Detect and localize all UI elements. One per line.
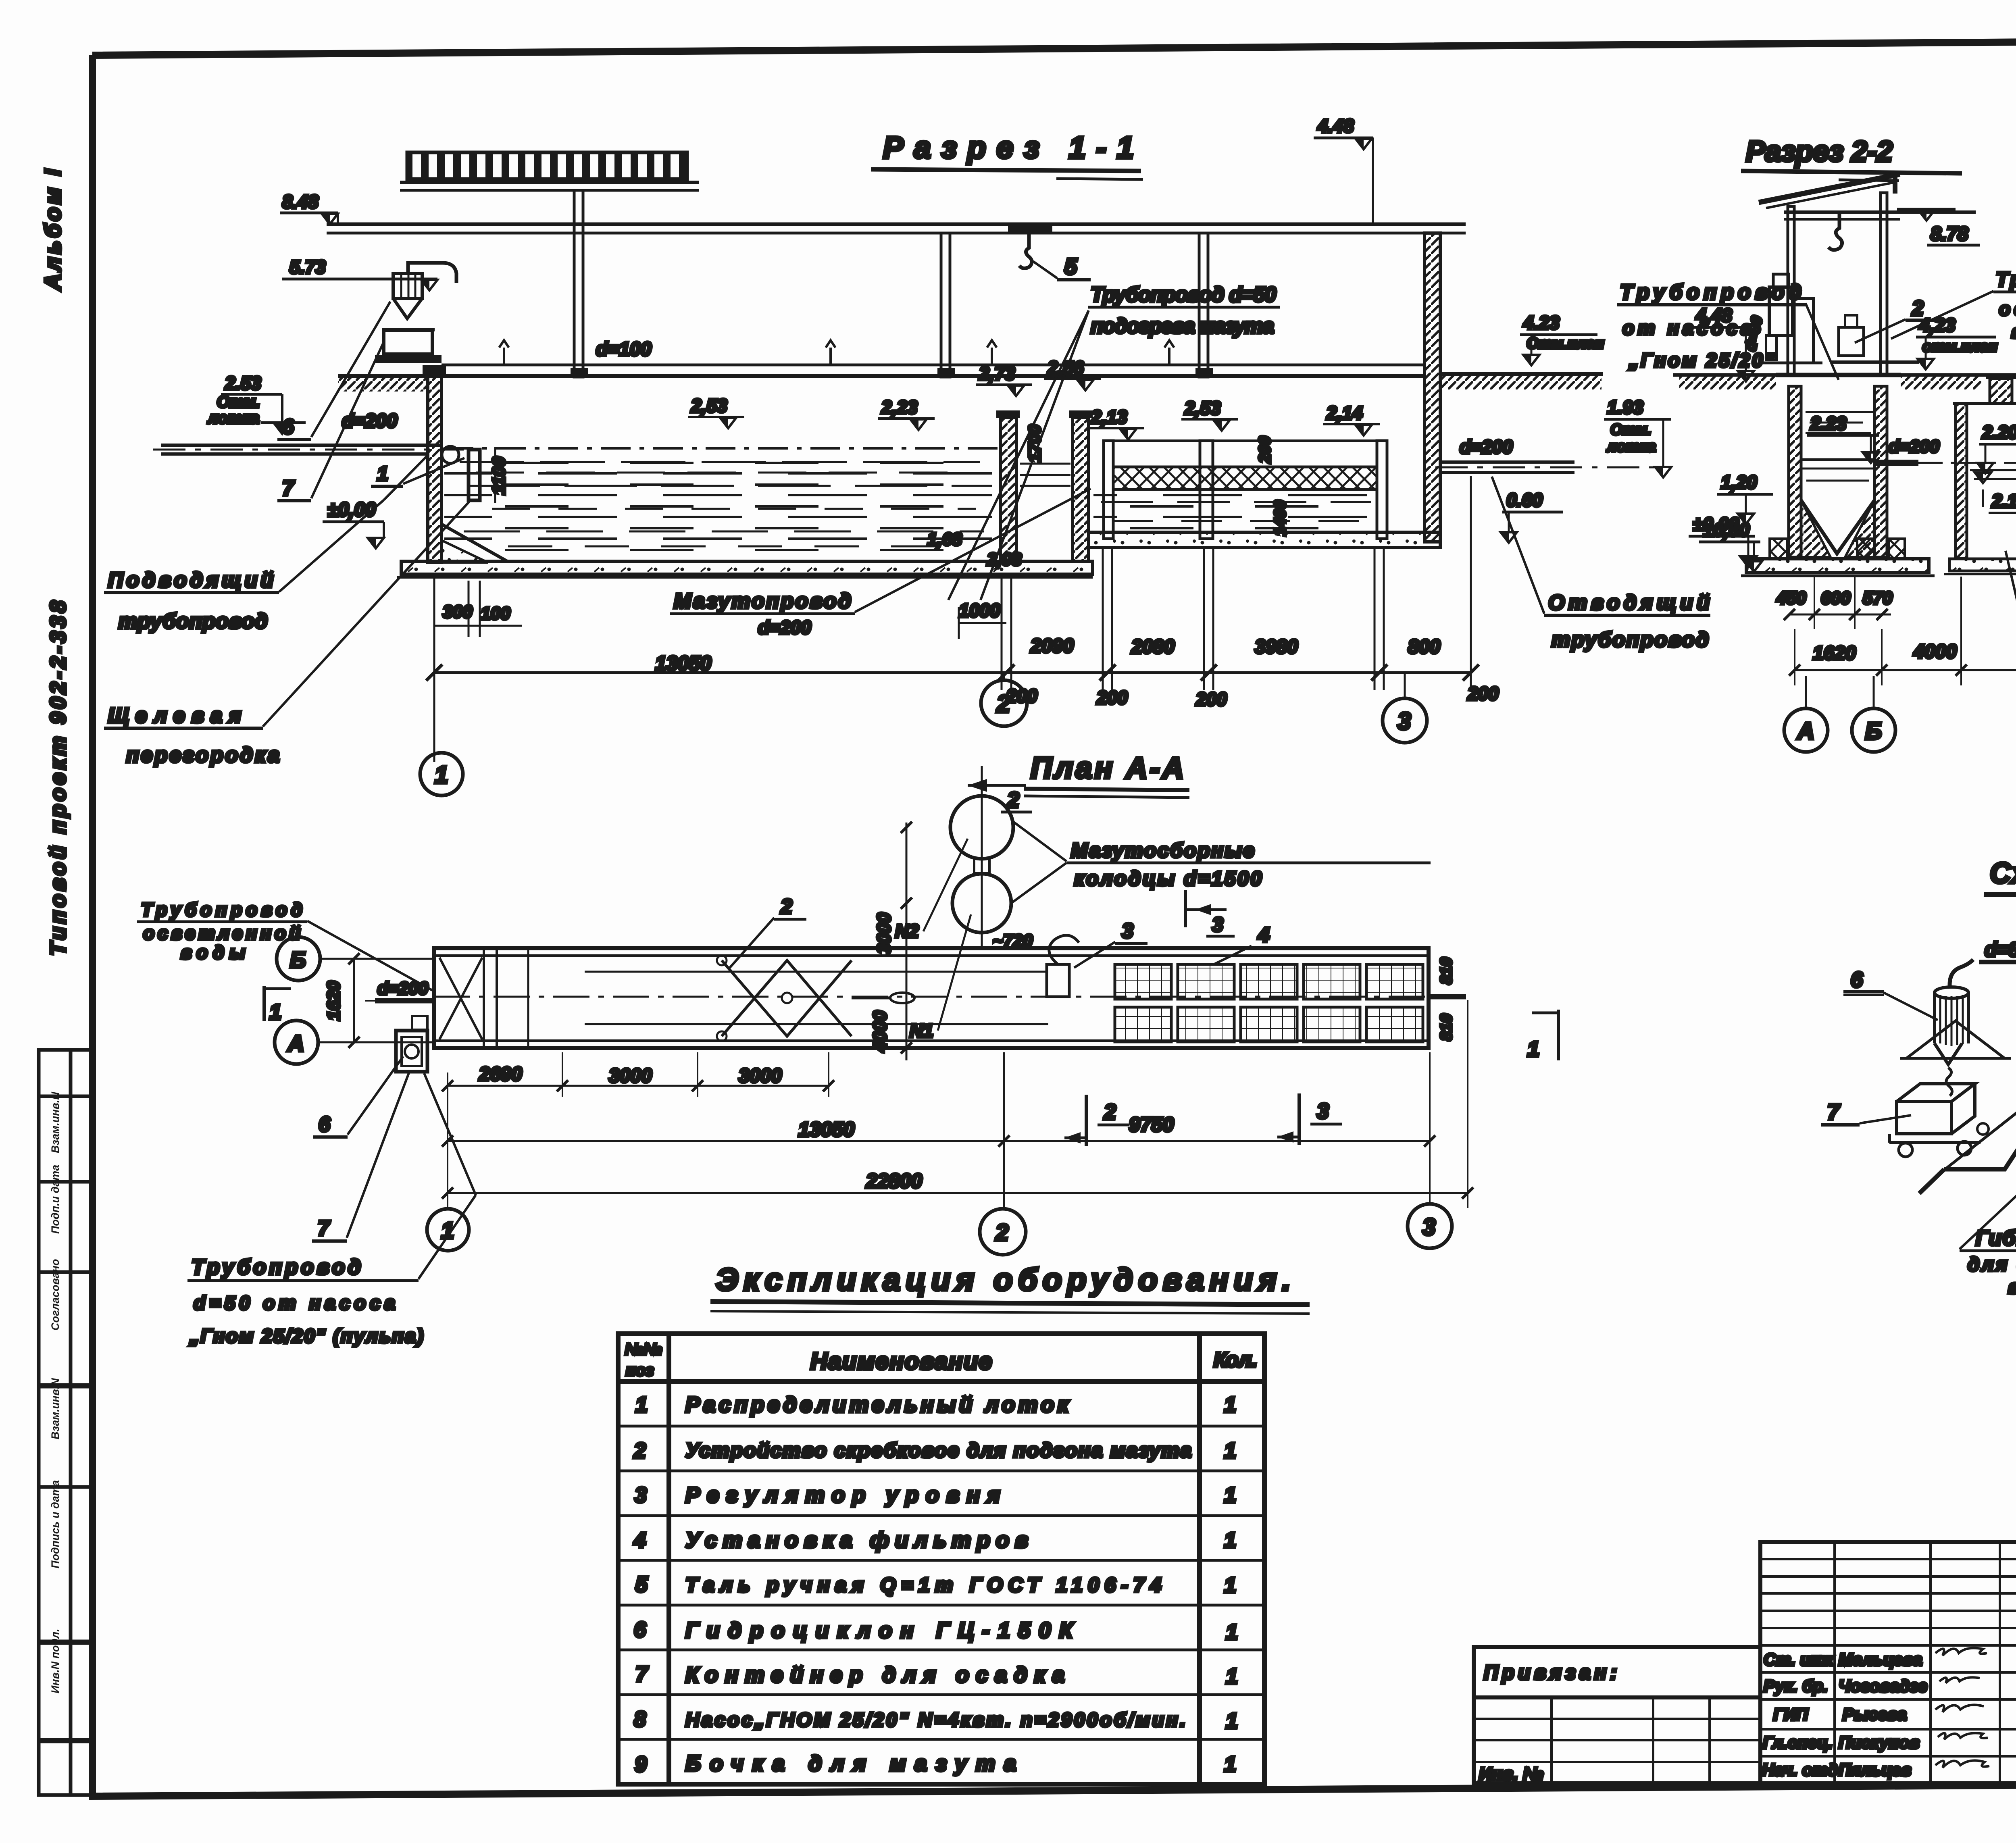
svg-text:ГИП: ГИП (1773, 1705, 1808, 1724)
anchor lugs (1770, 539, 1787, 559)
svg-text:Рук. бр.: Рук. бр. (1764, 1676, 1828, 1695)
plan axis circle 1 (427, 1209, 469, 1251)
svg-text:2090: 2090 (1030, 635, 1074, 657)
svg-text:1: 1 (1226, 1620, 1238, 1644)
svg-text:Ст. инж: Ст. инж (1764, 1650, 1834, 1669)
svg-text:1: 1 (1224, 1483, 1236, 1507)
riser pipe scheme (1944, 962, 2016, 1169)
filter media band (1113, 467, 1377, 489)
svg-text:1000: 1000 (959, 600, 1000, 621)
svg-text:Трубопровод: Трубопровод (141, 899, 302, 920)
svg-text:6: 6 (634, 1618, 646, 1642)
table rows numbers (633, 1393, 649, 1776)
svg-text:200: 200 (1467, 683, 1499, 704)
pump 2 pedestal (1839, 327, 1864, 356)
svg-text:Подп.и дата: Подп.и дата (49, 1165, 61, 1234)
hut top beam (1784, 210, 1976, 214)
svg-text:воды: воды (181, 942, 245, 963)
svg-text:d=200: d=200 (758, 617, 811, 638)
svg-text:3: 3 (1422, 1214, 1435, 1240)
svg-text:810: 810 (1437, 958, 1455, 985)
svg-text:План А-А: План А-А (1031, 751, 1188, 785)
svg-text:2.10: 2.10 (1991, 490, 2016, 511)
svg-text:2,23: 2,23 (881, 397, 918, 418)
plan axis circle 2 (980, 1209, 1026, 1255)
svg-text:7: 7 (1827, 1100, 1841, 1124)
pump pit plan (396, 1031, 427, 1072)
svg-text:600: 600 (1821, 588, 1851, 608)
foundation slab tank2 (1089, 532, 1440, 548)
svg-text:Схема трубопроводов: Схема трубопроводов (1990, 857, 2016, 889)
svg-text:d=200: d=200 (1889, 437, 1940, 456)
svg-text:200: 200 (1256, 436, 1274, 464)
svg-text:колодцы d=1500: колодцы d=1500 (1074, 867, 1262, 890)
svg-text:„Гном 25/20": „Гном 25/20" (1629, 350, 1774, 371)
svg-text:5.73: 5.73 (289, 256, 326, 277)
svg-text:1: 1 (435, 761, 448, 788)
plan band outline (434, 948, 1429, 1048)
svg-text:1620: 1620 (324, 981, 344, 1020)
svg-text:2: 2 (1007, 788, 1019, 812)
table rows qty (1224, 1393, 1238, 1776)
mazut wells circles in plan (981, 766, 983, 948)
svg-text:200: 200 (1096, 687, 1128, 708)
svg-text:2,53: 2,53 (691, 395, 727, 416)
slot baffle (469, 450, 480, 500)
plan dim chain row2 (448, 1140, 1430, 1142)
section mark 1 right (1557, 1010, 1560, 1060)
cone hopper (1801, 500, 1874, 554)
signature names (1762, 1650, 1927, 1779)
privyazan box (1474, 1647, 1760, 1783)
svg-text:лотка: лотка (207, 409, 259, 427)
svg-text:Отм.план: Отм.план (1527, 335, 1604, 352)
section mark 3 upper (1184, 890, 1187, 927)
svg-text:3: 3 (1397, 708, 1411, 735)
svg-text:570: 570 (1863, 588, 1893, 608)
svg-text:Подпись и дата: Подпись и дата (49, 1480, 61, 1568)
svg-text:8: 8 (634, 1707, 646, 1731)
svg-text:13050: 13050 (655, 652, 711, 675)
svg-text:2,53: 2,53 (1184, 398, 1221, 419)
svg-text:2: 2 (996, 690, 1010, 717)
svg-text:3: 3 (1212, 913, 1223, 936)
ground hut floor (1776, 373, 1901, 377)
svg-text:Привязан:: Привязан: (1484, 1661, 1617, 1684)
svg-text:1: 1 (1224, 1752, 1236, 1776)
svg-text:Согласовано: Согласовано (49, 1259, 61, 1331)
svg-text:3000: 3000 (609, 1065, 652, 1087)
svg-text:1: 1 (441, 1218, 454, 1244)
svg-text:Пискунов: Пискунов (1839, 1733, 1920, 1752)
svg-text:Наименование: Наименование (810, 1348, 992, 1374)
ground hatch left of tank (338, 374, 428, 378)
plan axis circle 3 (1408, 1204, 1452, 1248)
water lines middle well (1970, 469, 2016, 471)
sludge container (384, 331, 432, 354)
svg-text:воды d=25: воды d=25 (2008, 1277, 2016, 1298)
column 1 (574, 190, 583, 377)
svg-text:3: 3 (1122, 919, 1133, 943)
svg-text:6: 6 (319, 1113, 331, 1136)
right wall (1425, 233, 1440, 542)
svg-text:2690: 2690 (479, 1064, 522, 1085)
svg-text:4.23: 4.23 (1523, 312, 1560, 333)
svg-text:Нач. отд: Нач. отд (1762, 1760, 1838, 1779)
svg-text:2: 2 (1104, 1100, 1116, 1124)
svg-text:1: 1 (377, 462, 388, 485)
scraper device in plan (722, 960, 852, 1036)
svg-text:2,73: 2,73 (979, 363, 1015, 384)
pump gnom in hut (1769, 287, 1793, 335)
svg-text:Мазутосборные: Мазутосборные (1071, 839, 1254, 862)
svg-text:Б: Б (290, 947, 306, 973)
svg-text:d=200: d=200 (1460, 436, 1513, 457)
tank1 bottom slope (442, 524, 507, 561)
svg-text:100: 100 (481, 604, 510, 623)
svg-text:трубопровод: трубопровод (119, 610, 268, 633)
svg-text:Взам.инв.N: Взам.инв.N (49, 1092, 61, 1153)
svg-text:подогрева мазута: подогрева мазута (1091, 314, 1274, 338)
svg-text:3000: 3000 (739, 1065, 782, 1087)
svg-text:2: 2 (633, 1439, 646, 1463)
section mark 2 top (968, 784, 1026, 787)
svg-text:3980: 3980 (1255, 636, 1298, 658)
axis circle A (1805, 676, 1807, 708)
hut roof (1759, 174, 1900, 202)
plan dim chain row3 (448, 1192, 1468, 1194)
axis lines A B (320, 958, 434, 960)
svg-text:200: 200 (1195, 689, 1227, 710)
hoist trolley and hook (1008, 224, 1052, 232)
svg-text:8.48: 8.48 (282, 191, 319, 212)
svg-text:Регулятор уровня: Регулятор уровня (685, 1483, 1000, 1507)
svg-text:№№: №№ (625, 1341, 662, 1358)
shed roof slab (407, 152, 687, 179)
hydrocyclone unit on platform (408, 263, 456, 283)
svg-text:810: 810 (1437, 1014, 1455, 1041)
vertical dim 3000 4000 (906, 823, 908, 1060)
svg-text:1,20: 1,20 (1721, 472, 1757, 493)
plan center axis (434, 996, 1429, 998)
svg-text:Кол.: Кол. (1214, 1348, 1258, 1372)
svg-text:Трубопровод: Трубопровод (1620, 281, 1801, 304)
svg-text:1: 1 (1224, 1528, 1236, 1552)
oil level line (444, 447, 999, 450)
tank top walkway (442, 364, 1425, 367)
svg-text:±0,00: ±0,00 (1693, 514, 1739, 535)
filter chamber posts (1104, 439, 1387, 442)
middle weir walls (1000, 417, 1016, 561)
middle well (1956, 404, 1967, 558)
svg-text:2: 2 (780, 895, 792, 918)
svg-text:d=200: d=200 (342, 410, 398, 432)
stamp strip vertical captions (49, 1092, 61, 1693)
svg-text:2.23: 2.23 (1810, 413, 1847, 434)
svg-text:Гибкий шланг: Гибкий шланг (1976, 1227, 2016, 1250)
column 2 (941, 233, 950, 377)
hook 2-2 (1829, 213, 1842, 250)
svg-text:1: 1 (269, 1000, 281, 1024)
svg-text:1: 1 (1224, 1439, 1236, 1463)
svg-text:450: 450 (1776, 588, 1806, 608)
svg-text:0.60: 0.60 (1506, 489, 1543, 510)
svg-text:d=200: d=200 (377, 979, 429, 998)
svg-text:22800: 22800 (866, 1170, 922, 1192)
dim 1620 vertical (353, 959, 355, 1042)
stand triangle (1906, 1021, 2005, 1058)
dim chain section 1-1 (434, 476, 1471, 762)
axis circle 3 (1404, 673, 1406, 698)
tank left wall (428, 376, 442, 562)
svg-text:4: 4 (633, 1528, 646, 1552)
svg-text:Трубопровод d=50: Трубопровод d=50 (1091, 283, 1276, 306)
outlet stub plan (1429, 994, 1466, 1000)
svg-text:4000: 4000 (1913, 641, 1957, 662)
ground right of wall (1440, 372, 1603, 376)
foundation slab 2-2 (1746, 559, 1929, 573)
svg-text:Гл.спец.: Гл.спец. (1763, 1733, 1833, 1752)
svg-text:Рысева: Рысева (1843, 1705, 1907, 1724)
svg-text:2,14: 2,14 (1326, 402, 1363, 423)
signatures scribbles (1935, 1648, 1989, 1768)
svg-text:7: 7 (318, 1217, 330, 1240)
svg-text:13050: 13050 (798, 1118, 854, 1141)
svg-text:Таль ручная Q=1т ГОСТ 110: Таль ручная Q=1т ГОСТ 1106-74 (685, 1574, 1161, 1596)
anchor plates on walkway (571, 368, 588, 376)
section mark 3 bottom (1297, 1093, 1301, 1145)
axis circle 1 (420, 753, 463, 796)
level regulator in plan (1047, 964, 1069, 997)
svg-text:1: 1 (1527, 1037, 1539, 1061)
svg-text:поз: поз (626, 1362, 654, 1379)
svg-text:осветленной: осветленной (143, 923, 300, 943)
svg-text:2: 2 (995, 1220, 1008, 1246)
svg-text:А: А (1797, 718, 1814, 744)
svg-text:9: 9 (635, 1752, 647, 1776)
svg-text:1: 1 (1224, 1393, 1236, 1417)
svg-text:Инв.N подл.: Инв.N подл. (49, 1629, 61, 1693)
svg-text:А: А (287, 1031, 304, 1056)
svg-text:5: 5 (1064, 254, 1077, 279)
svg-text:±0,00: ±0,00 (327, 499, 376, 521)
svg-text:Чоговадзе: Чоговадзе (1839, 1676, 1927, 1695)
svg-text:Мазутопровод: Мазутопровод (674, 589, 851, 613)
svg-text:Разрез 1-1: Разрез 1-1 (883, 131, 1137, 165)
crane beam (327, 223, 1466, 226)
svg-text:Взам.инв.N: Взам.инв.N (49, 1378, 61, 1439)
svg-text:воды d=80: воды d=80 (2011, 321, 2016, 342)
svg-text:1,68: 1,68 (927, 529, 962, 549)
left compartment of plan band (483, 948, 485, 1048)
table grid (618, 1334, 1264, 1784)
svg-text:лотка: лотка (1606, 438, 1656, 455)
water hatch tank2 (1093, 491, 1376, 531)
svg-text:1: 1 (1224, 1573, 1236, 1597)
svg-text:3: 3 (1317, 1099, 1329, 1123)
svg-text:9750: 9750 (1129, 1113, 1174, 1136)
svg-text:„Гном 25/20" (пульпа): „Гном 25/20" (пульпа) (189, 1326, 423, 1347)
svg-text:Щелевая: Щелевая (108, 704, 241, 727)
svg-text:Пяльцев: Пяльцев (1839, 1760, 1911, 1779)
svg-text:Мальцева: Мальцева (1839, 1650, 1922, 1669)
svg-text:6: 6 (1851, 968, 1863, 992)
svg-text:Разрез 2-2: Разрез 2-2 (1746, 135, 1895, 168)
section mark 1 left (262, 986, 266, 1021)
svg-text:перегородка: перегородка (126, 743, 279, 767)
svg-text:Инв. №: Инв. № (1479, 1764, 1543, 1784)
svg-text:7: 7 (282, 477, 295, 500)
svg-text:1: 1 (635, 1393, 648, 1417)
svg-text:2.53: 2.53 (225, 373, 261, 394)
foundation slab tank1 (401, 561, 1093, 574)
svg-text:Распределительный лоток: Распределительный лоток (685, 1393, 1070, 1417)
svg-text:7: 7 (635, 1662, 649, 1686)
cart 7 (1897, 1102, 1951, 1134)
hose wiggle into cart (1946, 1068, 1952, 1096)
tank 2-2 walls (1789, 386, 1801, 557)
svg-text:Отм.: Отм. (217, 393, 260, 411)
svg-text:Насос„ГНОМ 25/20" N=4квт. n=29: Насос„ГНОМ 25/20" N=4квт. n=2900об/мин. (685, 1710, 1185, 1731)
svg-text:d=100: d=100 (596, 339, 652, 360)
svg-text:3: 3 (635, 1483, 647, 1507)
svg-text:2080: 2080 (1131, 636, 1175, 658)
axis circle B (1873, 676, 1875, 708)
svg-text:d=80: d=80 (1985, 938, 2016, 961)
svg-text:2.20: 2.20 (1982, 422, 2016, 443)
plan extension lines (448, 1000, 1468, 1208)
left margin stamp strip (39, 1050, 92, 1795)
svg-text:Подводящий: Подводящий (108, 569, 273, 592)
svg-text:Трубопровод: Трубопровод (1996, 268, 2016, 291)
svg-text:Трубопровод: Трубопровод (192, 1256, 361, 1279)
mazutosborn wells label (2-2) (2006, 551, 2016, 777)
svg-text:1.93: 1.93 (1607, 397, 1643, 418)
long diagonal pipe to otstoinik (1945, 956, 2016, 1169)
svg-text:трубопровод: трубопровод (1552, 628, 1709, 652)
slabs under wells (1949, 559, 2016, 571)
svg-text:1620: 1620 (1813, 643, 1856, 664)
filter cells plan (1115, 964, 1423, 1042)
axis circle 2 (1003, 673, 1005, 680)
svg-text:800: 800 (1408, 636, 1440, 658)
section mark 2 bottom (1085, 1095, 1088, 1146)
svg-text:8.78: 8.78 (1931, 223, 1968, 245)
svg-text:Устройство скребковое для подг: Устройство скребковое для подгона мазута (685, 1439, 1191, 1462)
svg-text:Отм.: Отм. (1610, 421, 1652, 438)
plan dim chain row1 (448, 1085, 829, 1087)
svg-text:отм.план: отм.план (1922, 338, 1997, 355)
axis circle B plan (277, 937, 320, 981)
mazutosborn wells label (plan) (1013, 822, 1066, 861)
svg-text:1: 1 (1226, 1709, 1238, 1733)
svg-text:2,13: 2,13 (1091, 406, 1127, 427)
hydrocyclone scheme (1935, 987, 1968, 998)
water hatch tank1 (444, 455, 999, 559)
axis circle A plan (275, 1020, 318, 1064)
svg-text:5: 5 (635, 1572, 648, 1597)
svg-text:4,48: 4,48 (1695, 305, 1732, 326)
svg-text:4.48: 4.48 (1317, 115, 1354, 136)
signature grid (1760, 1542, 2016, 1783)
svg-text:1: 1 (1226, 1664, 1238, 1689)
hut posts (1788, 206, 1794, 375)
water in tank 2-2 (1806, 411, 1873, 413)
svg-text:4: 4 (1258, 923, 1270, 947)
elevation 8.78 (1897, 208, 1956, 211)
svg-text:Б: Б (1865, 718, 1882, 744)
svg-text:Отводящий: Отводящий (1548, 591, 1710, 614)
column 3 (1199, 233, 1208, 377)
table rows names (685, 1393, 1191, 1776)
